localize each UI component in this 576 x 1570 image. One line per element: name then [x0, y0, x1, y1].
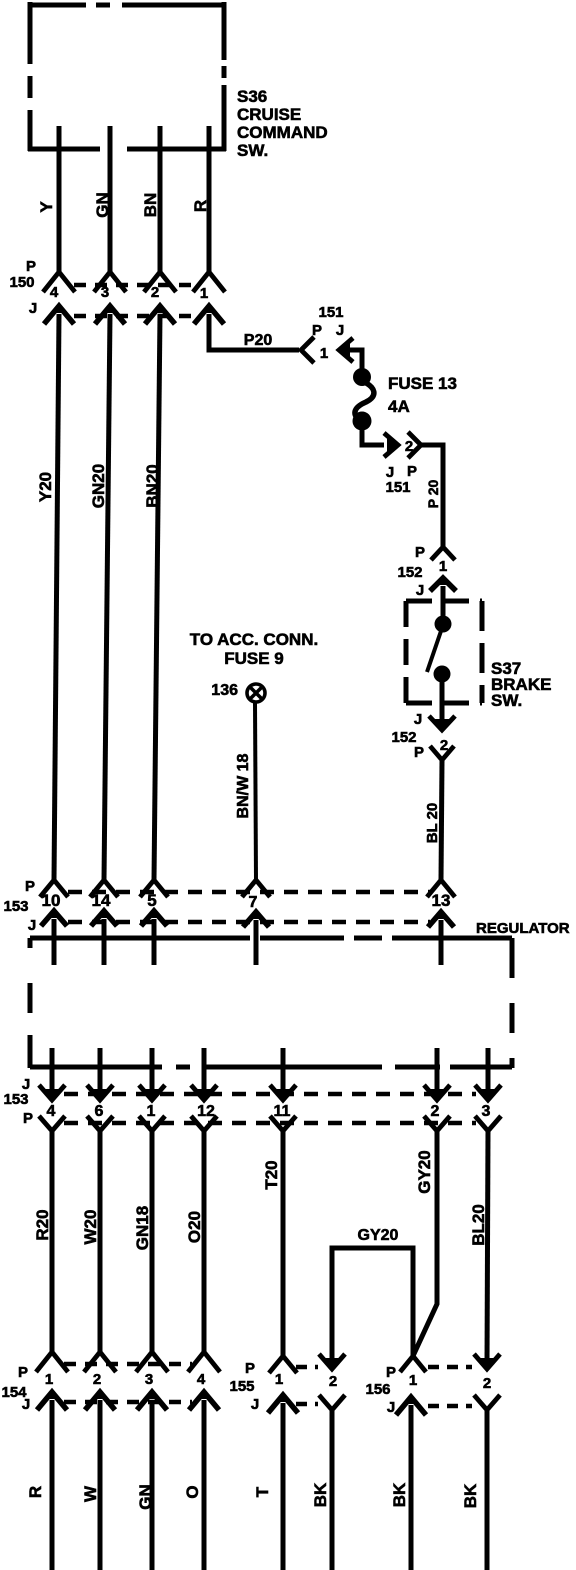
S37 lower contact [434, 666, 451, 683]
svg-text:4: 4 [197, 1371, 206, 1388]
connector 155 labels [229, 1360, 259, 1413]
connector J156 body dashes [428, 1404, 472, 1409]
wire GN from S36 to P150-3 [108, 126, 113, 272]
label wire P20 [244, 332, 273, 349]
svg-text:R20: R20 [33, 1209, 52, 1240]
svg-text:R: R [26, 1486, 45, 1498]
connector J156 pin 2 (plug down) [474, 1354, 500, 1369]
pin number 3 (153) [482, 1103, 491, 1120]
wire W20 from P153-6 to P154-2 [98, 1131, 103, 1352]
connector J153 bottom body dashes [64, 1092, 476, 1097]
svg-text:153: 153 [3, 1091, 28, 1108]
label wire BK 3 [461, 1483, 480, 1508]
pin number 2 (153) [431, 1103, 440, 1120]
pin number 10 [42, 891, 61, 910]
svg-text:P: P [312, 322, 322, 339]
label TO ACC. CONN. FUSE 9 [190, 630, 318, 668]
wire R from S36 to P150-1 [207, 126, 212, 272]
svg-text:P 20: P 20 [425, 480, 441, 509]
wire R20 from P153-4 to P154-1 [50, 1131, 55, 1352]
svg-text:1: 1 [439, 558, 447, 575]
wire J153-10 into regulator [52, 919, 57, 965]
svg-text:J: J [29, 300, 37, 317]
connector P154 body dashes [64, 1362, 192, 1367]
connector J150 pin 2 [145, 305, 175, 324]
svg-text:P: P [245, 1360, 255, 1377]
connector 153 top labels [3, 878, 36, 934]
pin number 1 of 152 [439, 558, 447, 575]
connector P153 socket pin 1 (bottom) [139, 1116, 165, 1131]
label FUSE 13 4A [388, 374, 457, 416]
connector P153 socket pin 13 [427, 880, 455, 897]
svg-text:12: 12 [197, 1103, 215, 1120]
svg-text:FUSE 9: FUSE 9 [224, 649, 284, 668]
connector P153 socket pin 6 (bottom) [87, 1116, 113, 1131]
wire regulator to J153-12 [202, 1048, 207, 1096]
svg-text:14: 14 [92, 891, 111, 910]
label REGULATOR [476, 920, 570, 937]
pin number 3 [101, 284, 109, 301]
label wire GY20 vertical [415, 1150, 434, 1193]
node 136 junction symbol [247, 684, 265, 702]
connector P151 socket pin 1 [301, 337, 314, 363]
connector P154 socket pin 4 [188, 1352, 220, 1372]
connector 152 lower labels [391, 711, 424, 761]
label wire BL20 [469, 1204, 488, 1246]
label wire GN20 [89, 464, 108, 508]
wire Y from S36 pin to P150-4 [57, 126, 62, 272]
label wire BK 2 [390, 1482, 409, 1507]
connector P153 socket pin 5 [140, 880, 168, 897]
svg-text:W20: W20 [81, 1210, 100, 1245]
connector J150 pin 1 [194, 305, 224, 324]
connector 154 labels [1, 1364, 30, 1413]
pin number 4 [50, 284, 59, 301]
svg-text:Y: Y [37, 201, 56, 213]
svg-text:O20: O20 [185, 1211, 204, 1243]
svg-text:151: 151 [385, 479, 410, 496]
connector J154 pin 1 [37, 1391, 67, 1410]
svg-text:Y20: Y20 [36, 472, 55, 502]
pin number 2 (154) [93, 1371, 101, 1388]
wire GN below J154-3 [150, 1400, 155, 1570]
wire T20 from P153-11 to P155-1 [281, 1131, 286, 1356]
svg-text:BN: BN [141, 193, 160, 218]
connector P151 socket pin 2 [408, 432, 421, 458]
svg-text:SW.: SW. [237, 141, 268, 160]
svg-text:J: J [28, 917, 36, 934]
connector 156 labels [365, 1364, 396, 1416]
svg-text:O: O [183, 1485, 202, 1498]
wire S37 lower contact to J152-2 [440, 681, 445, 726]
labels J P 151 lower [385, 463, 417, 496]
pin number 2 (156) [483, 1375, 491, 1392]
wire R below J154-1 [50, 1400, 55, 1570]
wire BN20 from J150-2 to P153-5 [154, 314, 160, 880]
wire BK below J156-1 [409, 1405, 414, 1570]
connector P154 socket pin 2 [84, 1352, 116, 1372]
svg-text:BK: BK [311, 1482, 330, 1507]
wire J153-5 into regulator [152, 919, 157, 965]
connector J153 pin 10 [41, 910, 67, 926]
svg-text:CRUISE: CRUISE [237, 105, 301, 124]
pin number 1 [200, 285, 208, 302]
label wire GY20 horizontal [358, 1227, 399, 1244]
svg-text:1: 1 [45, 1371, 53, 1388]
svg-text:3: 3 [482, 1103, 491, 1120]
wire J153-14 into regulator [102, 919, 107, 965]
svg-text:J: J [22, 1396, 30, 1413]
label wire R [191, 200, 210, 212]
pin number 7 [249, 894, 258, 911]
svg-text:REGULATOR: REGULATOR [476, 920, 570, 937]
connector J155 pin 1 [268, 1394, 298, 1413]
svg-text:2: 2 [151, 284, 159, 301]
wire GN18 from P153-1 to P154-3 [150, 1131, 155, 1352]
label S37 BRAKE SW. [491, 659, 551, 710]
connector J150 pin 3 [95, 305, 125, 324]
svg-text:1: 1 [320, 345, 328, 362]
svg-text:GY20: GY20 [415, 1150, 434, 1193]
wire J153-13 into regulator [439, 920, 444, 965]
pin number 1 (155) [275, 1371, 283, 1388]
wire regulator to J153-3 [486, 1048, 491, 1096]
fuse F13 top terminal [353, 368, 371, 386]
label wire R [26, 1486, 45, 1498]
svg-text:BN20: BN20 [143, 464, 162, 507]
svg-text:3: 3 [101, 284, 109, 301]
svg-text:13: 13 [432, 891, 451, 910]
connector P153 socket pin 12 (bottom) [191, 1116, 217, 1131]
wire regulator to J153-2 [435, 1048, 440, 1096]
pin number 2 of 151 [405, 438, 413, 455]
connector P153 socket pin 11 (bottom) [270, 1116, 296, 1131]
connector P153 socket pin 4 (bottom) [39, 1116, 65, 1131]
connector J153 pin 12 (bottom) [191, 1085, 217, 1100]
connector J155 pin 2 (plug down) [319, 1354, 345, 1369]
label wire W [81, 1485, 100, 1502]
wire O below J154-4 [202, 1400, 207, 1570]
svg-text:J: J [414, 711, 422, 728]
svg-text:6: 6 [95, 1103, 104, 1120]
svg-text:FUSE 13: FUSE 13 [388, 374, 457, 393]
svg-text:GN: GN [93, 192, 112, 218]
svg-text:152: 152 [391, 729, 416, 746]
svg-text:11: 11 [274, 1103, 291, 1120]
svg-text:P20: P20 [244, 332, 273, 349]
svg-text:10: 10 [42, 891, 61, 910]
connector J152 pin 1 [430, 577, 456, 591]
svg-text:4: 4 [47, 1103, 56, 1120]
connector J153 pin 6 (bottom) [87, 1085, 113, 1100]
svg-text:J: J [336, 322, 344, 339]
label wire BL 20 [424, 803, 441, 844]
svg-text:3: 3 [145, 1371, 153, 1388]
label wire BN/W 18 [235, 753, 252, 818]
svg-text:152: 152 [397, 564, 422, 581]
svg-text:BN/W 18: BN/W 18 [235, 753, 252, 818]
svg-text:153: 153 [3, 898, 28, 915]
svg-text:T: T [253, 1486, 272, 1497]
label wire O [183, 1485, 202, 1498]
svg-text:2: 2 [93, 1371, 101, 1388]
svg-text:TO ACC. CONN.: TO ACC. CONN. [190, 630, 318, 649]
connector P153 body dashes (P row) [68, 890, 430, 895]
connector P154 socket pin 3 [136, 1352, 168, 1372]
label wire P 20 vertical [425, 480, 441, 509]
fuse F13 bottom terminal [353, 412, 372, 431]
wire BK below P156-2 [485, 1411, 490, 1570]
svg-text:2: 2 [483, 1375, 491, 1392]
svg-text:5: 5 [147, 891, 156, 910]
connector J153 pin 11 (bottom) [270, 1085, 296, 1100]
svg-text:R: R [191, 200, 210, 212]
connector P153 socket pin 7 [242, 880, 270, 897]
connector 151 labels [312, 304, 344, 362]
connector J154 pin 4 [189, 1391, 219, 1410]
connector P152 socket pin 2 [430, 746, 454, 760]
pin number 6 (153) [95, 1103, 104, 1120]
connector P155 socket pin 2 [319, 1395, 345, 1410]
connector J151 pin 2 [384, 433, 398, 457]
wire W below J154-2 [98, 1400, 103, 1570]
pin number 1 (156) [409, 1372, 417, 1389]
label wire T [253, 1486, 272, 1497]
component S37 brake switch (dashed box) [406, 601, 482, 703]
svg-text:P: P [23, 1110, 33, 1127]
pin number 3 (154) [145, 1371, 153, 1388]
connector P150 socket pin 3 [94, 272, 126, 292]
connector J153 pin 14 [91, 910, 117, 926]
S37 switch blade [427, 631, 441, 672]
connector J153 pin 3 (bottom) [475, 1085, 501, 1100]
svg-text:136: 136 [211, 682, 238, 699]
connector P150 label [9, 258, 37, 317]
svg-text:SW.: SW. [491, 691, 522, 710]
connector P150 body dashes (P row) [74, 283, 196, 288]
fuse F13 element [355, 381, 374, 421]
svg-text:P: P [414, 744, 424, 761]
svg-text:GY20: GY20 [358, 1227, 399, 1244]
connector J153 pin 2 (bottom) [424, 1085, 450, 1100]
label wire R20 [33, 1209, 52, 1240]
svg-text:J: J [387, 1399, 395, 1416]
S37 upper contact [435, 616, 452, 633]
svg-text:4: 4 [50, 284, 59, 301]
label wire GN [136, 1484, 155, 1510]
wire P20 from J150-1 to P151-1 [209, 314, 299, 350]
wire P20 from P151-2 to P152-1 [421, 445, 443, 546]
svg-text:J: J [251, 1396, 259, 1413]
svg-text:1: 1 [147, 1103, 156, 1120]
connector P155 socket pin 1 [269, 1356, 297, 1373]
connector J154 body dashes [64, 1400, 192, 1405]
svg-text:BK: BK [461, 1483, 480, 1508]
wire regulator to J153-6 [98, 1048, 103, 1096]
component REGULATOR (dashed box) [30, 938, 512, 1068]
wire regulator to J153-4 [50, 1048, 55, 1096]
pin number 2 of 152 [440, 737, 448, 754]
wire BL20 from P152-2 to P153-13 [441, 761, 442, 880]
svg-text:P: P [386, 1364, 396, 1381]
svg-text:GN: GN [136, 1484, 155, 1510]
connector J150 body dashes (J row) [74, 314, 196, 319]
pin number 2 [151, 284, 159, 301]
svg-text:T20: T20 [262, 1160, 281, 1189]
label wire GN18 [133, 1206, 152, 1250]
wire from fuse 13 to J151-2 [362, 429, 384, 445]
svg-text:4A: 4A [388, 397, 410, 416]
connector J155 body dashes [296, 1402, 318, 1407]
component S36 cruise command switch (dashed box) [28, 2, 226, 151]
wire O20 from P153-12 to P154-4 [202, 1131, 207, 1352]
label wire BN20 [143, 464, 162, 507]
label wire BN [141, 193, 160, 218]
connector J153 pin 1 (bottom) [139, 1085, 165, 1100]
svg-text:P: P [25, 878, 35, 895]
connector P154 socket pin 1 [36, 1352, 68, 1372]
label wire T20 [262, 1160, 281, 1189]
svg-text:P: P [415, 544, 425, 561]
svg-text:150: 150 [9, 274, 34, 291]
svg-text:1: 1 [200, 285, 208, 302]
svg-text:151: 151 [318, 304, 343, 321]
connector J153 pin 5 [141, 910, 167, 926]
node 136 label [211, 682, 238, 699]
label wire GN [93, 192, 112, 218]
wire BN/W 18 from node 136 to P153-7 [255, 703, 256, 880]
wire BK below P155-2 [330, 1411, 335, 1570]
connector P153 socket pin 2 (bottom) [424, 1116, 450, 1131]
wire from J151-1 to fuse 13 [345, 350, 362, 369]
connector P156 socket pin 2 [474, 1395, 500, 1410]
svg-text:BL20: BL20 [469, 1204, 488, 1246]
connector P156 socket pin 1 [400, 1356, 426, 1372]
pin number 2 (155) [329, 1373, 337, 1390]
svg-text:1: 1 [409, 1372, 417, 1389]
wire J152-1 into S37 [441, 586, 446, 624]
wire regulator to J153-11 [281, 1048, 286, 1096]
connector J154 pin 2 [85, 1391, 115, 1410]
svg-text:P: P [407, 463, 417, 480]
connector J156 pin 1 [396, 1396, 426, 1415]
connector P153 socket pin 14 [90, 880, 118, 897]
pin number 11 (153) [274, 1103, 291, 1120]
connector P152 socket pin 1 [431, 547, 455, 560]
label wire O20 [185, 1211, 204, 1243]
connector J153 pin 4 (bottom) [39, 1085, 65, 1100]
svg-text:COMMAND: COMMAND [237, 123, 328, 142]
wire GY20 branch to P155-2 [332, 1248, 413, 1364]
connector J154 pin 3 [137, 1391, 167, 1410]
pin number 1 (153) [147, 1103, 156, 1120]
connector P152 labels [397, 544, 425, 599]
connector 153 bottom labels [3, 1076, 33, 1127]
pin number 12 (153) [197, 1103, 215, 1120]
connector J153 pin 7 [243, 911, 269, 927]
svg-text:P: P [26, 258, 36, 275]
connector P153 socket pin 3 (bottom) [475, 1116, 501, 1131]
pin number 1 (154) [45, 1371, 53, 1388]
label wire Y20 [36, 472, 55, 502]
svg-text:GN20: GN20 [89, 464, 108, 508]
wire BN from S36 to P150-2 [158, 126, 163, 272]
wire GN20 from J150-3 to P153-14 [104, 314, 110, 880]
wire T below J155-1 [281, 1403, 286, 1570]
connector P155 body dashes [296, 1365, 318, 1370]
wire GY20 from P153-2 to node P156-1 [413, 1131, 437, 1356]
connector P153 bottom body dashes [64, 1121, 476, 1126]
connector J153 body dashes (J row) [68, 920, 430, 925]
connector J153 pin 13 [428, 911, 454, 927]
pin number 14 [92, 891, 111, 910]
label wire BK 1 [311, 1482, 330, 1507]
connector P156 body dashes [428, 1365, 472, 1370]
wire J153-7 into regulator [254, 920, 259, 965]
wire BL20 from P153-3 to P156-2 [487, 1131, 488, 1364]
pin number 4 (153) [47, 1103, 56, 1120]
pin number 13 [432, 891, 451, 910]
pin number 4 (154) [197, 1371, 206, 1388]
label wire W20 [81, 1210, 100, 1245]
connector P153 socket pin 10 [40, 880, 68, 897]
connector P150 socket pin 4 [43, 272, 75, 292]
svg-text:S36: S36 [237, 87, 267, 106]
connector J151 pin 1 [339, 338, 353, 362]
connector J150 pin 4 [44, 305, 74, 324]
connector P150 socket pin 1 [193, 272, 225, 292]
svg-text:GN18: GN18 [133, 1206, 152, 1250]
svg-text:2: 2 [329, 1373, 337, 1390]
svg-text:J: J [416, 582, 424, 599]
svg-text:W: W [81, 1485, 100, 1502]
svg-text:P: P [18, 1364, 28, 1381]
connector P150 socket pin 2 [144, 272, 176, 292]
svg-text:155: 155 [229, 1378, 254, 1395]
svg-text:BK: BK [390, 1482, 409, 1507]
connector J152 pin 2 [429, 716, 455, 730]
label S36 CRUISE COMMAND SW. [237, 87, 328, 160]
pin number 5 [147, 891, 156, 910]
svg-text:2: 2 [431, 1103, 440, 1120]
label wire Y [37, 201, 56, 213]
svg-text:1: 1 [275, 1371, 283, 1388]
svg-text:156: 156 [365, 1381, 390, 1398]
wire regulator to J153-1 [150, 1048, 155, 1096]
wire Y20 from J150-4 to P153-10 [54, 314, 59, 880]
svg-text:BL 20: BL 20 [424, 803, 441, 844]
